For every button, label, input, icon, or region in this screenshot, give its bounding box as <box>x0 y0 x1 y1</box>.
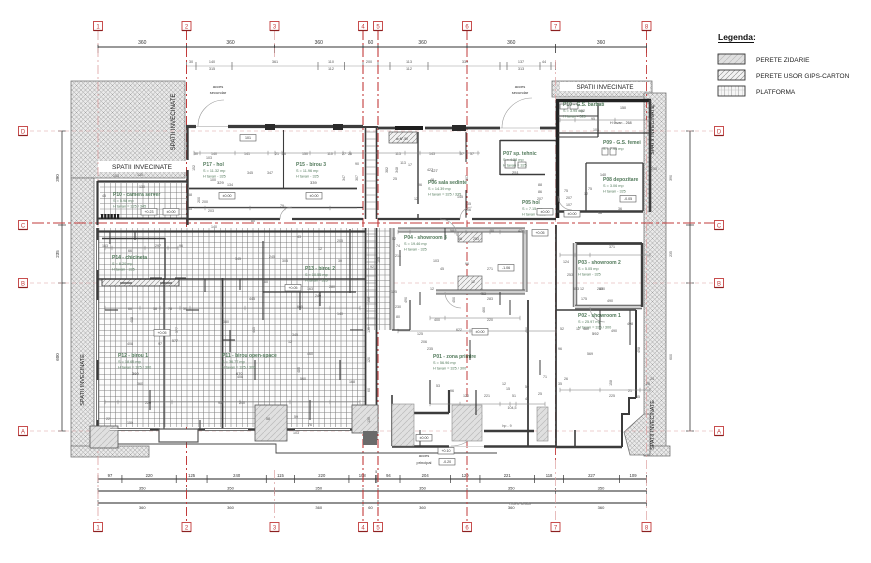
svg-text:360: 360 <box>137 382 143 386</box>
svg-text:307: 307 <box>355 175 359 181</box>
svg-text:30: 30 <box>189 60 193 64</box>
room P15 birou 3 label <box>296 162 326 185</box>
svg-text:+0.23: +0.23 <box>144 210 153 214</box>
window south wall 2 <box>205 428 248 430</box>
dim chain lower south <box>105 400 360 404</box>
grid bubble 3 bottom <box>270 523 279 532</box>
interior small dimension numbers <box>102 104 657 435</box>
svg-text:P14 - chicineta: P14 - chicineta <box>112 255 147 261</box>
svg-text:200: 200 <box>202 200 208 204</box>
svg-text:480: 480 <box>525 327 529 333</box>
top secondary dimension line <box>187 62 556 70</box>
west wall upper segment <box>186 126 188 160</box>
svg-text:350: 350 <box>508 486 515 491</box>
svg-text:57: 57 <box>470 152 474 156</box>
svg-text:130: 130 <box>137 173 143 177</box>
wall stub P02 a <box>599 310 601 330</box>
svg-text:38: 38 <box>153 307 157 311</box>
room P06 sala sedinte label <box>428 180 467 197</box>
svg-text:297: 297 <box>155 244 161 248</box>
svg-text:104,5: 104,5 <box>508 406 517 410</box>
neighbour zone hatch top-left block <box>71 81 185 178</box>
svg-text:361: 361 <box>272 60 278 64</box>
svg-text:97: 97 <box>158 342 162 346</box>
svg-text:207: 207 <box>557 197 561 203</box>
svg-text:C: C <box>717 223 722 229</box>
svg-text:400: 400 <box>434 318 440 322</box>
svg-text:±0.00: ±0.00 <box>310 194 319 198</box>
grid bubble 6 top <box>463 22 472 31</box>
svg-text:124: 124 <box>563 260 569 264</box>
partition P13 south <box>263 291 356 293</box>
label SPATII INVECINATE right band vertical lower <box>650 400 656 450</box>
svg-text:110: 110 <box>649 104 655 108</box>
svg-text:55: 55 <box>636 395 640 399</box>
svg-text:30: 30 <box>490 229 494 233</box>
south porch 2 hatch <box>255 405 287 441</box>
svg-text:C: C <box>21 223 26 229</box>
grid row line B <box>30 282 714 284</box>
svg-text:113: 113 <box>395 152 401 156</box>
svg-text:360: 360 <box>227 505 234 510</box>
room P08 depozitare label <box>603 177 639 194</box>
dim chain P03 <box>560 253 650 257</box>
room P04 showroom 3 label <box>404 235 447 252</box>
svg-text:280: 280 <box>329 285 335 289</box>
room P11 open space label <box>222 353 277 376</box>
svg-text:360: 360 <box>419 505 426 510</box>
level marker P11 <box>285 285 301 292</box>
label SPATII INVECINATE left band vertical <box>80 354 86 406</box>
neighbour zone hatch right band <box>644 93 666 448</box>
svg-text:H tavan - 268: H tavan - 268 <box>610 121 632 125</box>
label SPATII INVECINATE top-left vertical <box>170 93 177 150</box>
svg-text:175: 175 <box>581 297 587 301</box>
partition P14 east <box>164 238 166 279</box>
svg-text:109: 109 <box>630 473 638 478</box>
partition column line7 upper <box>555 225 557 310</box>
svg-text:S = 25.97 mp: S = 25.97 mp <box>578 320 601 324</box>
grid bubble 7 bottom <box>551 523 560 532</box>
svg-text:A: A <box>717 429 721 435</box>
wall stub P02 b <box>629 310 631 345</box>
svg-text:135: 135 <box>367 327 371 333</box>
svg-text:143: 143 <box>429 152 435 156</box>
svg-text:12: 12 <box>576 327 580 331</box>
label SPATII INVECINATE right band vertical upper <box>650 105 656 155</box>
door arc P04 <box>445 292 461 308</box>
svg-text:74: 74 <box>396 244 400 248</box>
svg-text:22: 22 <box>106 417 110 421</box>
right dimension line <box>686 131 694 431</box>
room P17 hol label <box>203 162 226 185</box>
svg-text:75: 75 <box>588 187 592 191</box>
svg-text:235: 235 <box>55 250 60 258</box>
short wall segments lower-left <box>105 232 363 429</box>
svg-text:283: 283 <box>487 297 493 301</box>
bottom dimension row 3 <box>98 500 647 510</box>
top main dimension labels <box>138 40 605 46</box>
svg-text:35: 35 <box>558 382 562 386</box>
svg-text:43: 43 <box>297 235 301 239</box>
svg-text:48: 48 <box>430 178 434 182</box>
svg-text:150: 150 <box>302 152 308 156</box>
svg-text:±0.00: ±0.00 <box>223 194 232 198</box>
svg-text:141: 141 <box>244 152 250 156</box>
label acces secundar west <box>210 84 227 95</box>
svg-text:350: 350 <box>598 486 605 491</box>
svg-text:305: 305 <box>282 259 288 263</box>
svg-text:SPATII INVECINATE: SPATII INVECINATE <box>576 84 633 91</box>
grid column line 2 <box>186 31 188 523</box>
svg-text:360: 360 <box>315 505 322 510</box>
svg-text:251: 251 <box>512 170 519 175</box>
svg-text:206: 206 <box>421 340 427 344</box>
niche label <box>396 137 408 141</box>
svg-text:B: B <box>717 281 721 287</box>
svg-text:86: 86 <box>538 190 542 194</box>
svg-text:S = 19.46 mp: S = 19.46 mp <box>404 242 427 246</box>
vestibule wall jamb <box>448 390 450 413</box>
svg-text:acces: acces <box>515 84 525 89</box>
room P14 chicineta label <box>112 255 147 272</box>
svg-text:360: 360 <box>138 40 147 46</box>
dim chain P04 north <box>398 230 525 234</box>
level marker P04b <box>498 265 514 272</box>
svg-text:207: 207 <box>566 196 572 200</box>
svg-text:96: 96 <box>418 183 422 187</box>
grid bubble 6 bottom <box>463 523 472 532</box>
svg-text:P04 - showroom 3: P04 - showroom 3 <box>404 235 447 241</box>
window south wall 3 <box>295 428 350 430</box>
room P07 sp tehnic label <box>503 151 537 168</box>
svg-text:H tavan - 325: H tavan - 325 <box>563 115 586 119</box>
vestibule wall east <box>484 430 534 432</box>
svg-text:59: 59 <box>294 415 298 419</box>
svg-text:110: 110 <box>327 152 333 156</box>
partition P17/P15 <box>283 130 285 188</box>
bottom dimension row 1 <box>98 470 647 483</box>
room P01 zona primire label <box>433 354 476 371</box>
label acces principal <box>417 453 432 465</box>
svg-text:P17 - hol: P17 - hol <box>203 162 224 168</box>
svg-text:S = 18.65 mp: S = 18.65 mp <box>118 360 141 364</box>
svg-text:315: 315 <box>209 67 215 71</box>
svg-text:26: 26 <box>348 152 352 156</box>
svg-text:134: 134 <box>227 183 233 187</box>
svg-text:350: 350 <box>227 486 234 491</box>
grid row line D <box>30 130 714 132</box>
svg-text:665: 665 <box>297 305 303 309</box>
wall stub P01 c <box>409 300 411 330</box>
svg-text:28: 28 <box>646 382 650 386</box>
svg-text:130: 130 <box>139 185 145 189</box>
svg-text:PERETE ZIDARIE: PERETE ZIDARIE <box>756 57 810 64</box>
room P06 number <box>431 168 438 173</box>
north wall west section <box>228 125 363 128</box>
east outer wall upper <box>649 100 652 212</box>
south outer wall a <box>98 428 161 431</box>
svg-text:P10 - camera server: P10 - camera server <box>113 192 160 198</box>
svg-text:400: 400 <box>599 287 605 291</box>
partition west of P06 stub <box>417 214 419 219</box>
svg-text:45: 45 <box>102 194 106 198</box>
room P10 extra dim <box>610 106 632 125</box>
svg-text:±0.00: ±0.00 <box>420 436 429 440</box>
svg-text:SPATII INVECINATE: SPATII INVECINATE <box>112 164 173 171</box>
svg-text:acces: acces <box>419 453 429 458</box>
svg-text:204: 204 <box>422 473 430 478</box>
level marker hall central <box>306 193 322 200</box>
wall stub P01 b <box>475 390 477 415</box>
svg-text:113: 113 <box>406 60 412 64</box>
north wall stair strip <box>363 126 378 128</box>
svg-text:44: 44 <box>542 60 546 64</box>
svg-text:SPATII INVECINATE: SPATII INVECINATE <box>170 93 177 150</box>
north wall west stub <box>186 125 196 128</box>
svg-text:hp - 9: hp - 9 <box>502 424 511 428</box>
north wall central black segment <box>395 126 423 130</box>
exterior platform hatch porch 2 <box>452 405 482 441</box>
svg-text:480: 480 <box>583 327 589 331</box>
svg-text:51: 51 <box>512 394 516 398</box>
svg-text:P03 - showroom 2: P03 - showroom 2 <box>578 260 621 266</box>
legend label platforma <box>756 89 796 96</box>
svg-text:240: 240 <box>315 294 321 298</box>
svg-text:137: 137 <box>518 60 524 64</box>
svg-text:235: 235 <box>669 251 673 257</box>
svg-text:592: 592 <box>592 331 599 336</box>
west wall camera server room <box>96 181 98 225</box>
partition east of P06 upper <box>465 132 467 162</box>
legend label perete zidarie <box>756 57 810 64</box>
svg-text:235: 235 <box>427 347 433 351</box>
svg-text:125: 125 <box>391 290 397 294</box>
svg-text:360: 360 <box>226 40 235 46</box>
legend swatch perete usor gips-carton <box>718 70 745 80</box>
niche hatch north of P06 <box>389 132 417 143</box>
svg-text:H tavan = 325 / 345: H tavan = 325 / 345 <box>113 205 146 209</box>
grid bubble 7 top <box>551 22 560 31</box>
svg-text:PERETE USOR GIPS-CARTON: PERETE USOR GIPS-CARTON <box>756 73 850 80</box>
dim chain north band <box>194 151 480 155</box>
level marker P05 <box>537 209 553 216</box>
svg-text:17: 17 <box>408 163 412 167</box>
svg-text:220: 220 <box>146 473 154 478</box>
level marker entry2 <box>416 435 432 442</box>
level marker P04 <box>532 230 548 237</box>
svg-text:221: 221 <box>504 473 512 478</box>
level marker P10 server b <box>163 209 179 216</box>
dim chain GS <box>560 118 650 122</box>
label SPATII INVECINATE top-left horizontal <box>98 161 186 172</box>
svg-text:380: 380 <box>223 320 229 324</box>
svg-text:97: 97 <box>108 473 113 478</box>
svg-text:253: 253 <box>567 273 573 277</box>
south wall north band west b <box>292 218 363 220</box>
svg-text:66: 66 <box>128 249 132 253</box>
exterior platform hatch west of entry <box>392 404 414 446</box>
dim chain P01 north a <box>430 316 520 320</box>
south wall north band central a <box>378 218 460 220</box>
grid row line A <box>30 430 714 432</box>
partition GS femei south <box>586 162 643 164</box>
svg-text:220: 220 <box>318 473 326 478</box>
svg-text:350: 350 <box>315 486 322 491</box>
svg-text:112: 112 <box>328 67 334 71</box>
svg-text:S = 11.96 mp: S = 11.96 mp <box>296 169 318 173</box>
svg-text:120: 120 <box>462 473 470 478</box>
south porch 3 hatch <box>352 405 378 433</box>
svg-text:345: 345 <box>235 257 241 261</box>
svg-text:360: 360 <box>418 40 427 46</box>
svg-text:S = 11.32 mp: S = 11.32 mp <box>203 169 225 173</box>
svg-text:acces: acces <box>213 84 223 89</box>
neighbour zone hatch bottom-right wedge <box>624 414 650 455</box>
partition GS barbati south <box>558 132 650 134</box>
dim chain P01 south <box>430 402 545 406</box>
svg-text:96: 96 <box>558 347 562 351</box>
grid bubble 3 top <box>270 22 279 31</box>
east wall P03 <box>641 243 643 307</box>
svg-text:88: 88 <box>538 183 542 187</box>
svg-text:158: 158 <box>367 297 371 303</box>
room P02 showroom 1 label <box>578 313 621 336</box>
grid bubble 5 bottom <box>374 523 383 532</box>
east wall P02 steps <box>622 398 636 447</box>
svg-text:12: 12 <box>430 287 434 291</box>
svg-text:B: B <box>21 281 25 287</box>
svg-text:577: 577 <box>175 327 179 333</box>
svg-text:79: 79 <box>280 204 284 208</box>
svg-text:271: 271 <box>487 267 493 271</box>
svg-text:408: 408 <box>127 342 133 346</box>
svg-text:347: 347 <box>267 171 273 175</box>
svg-text:203: 203 <box>208 209 214 213</box>
left corner platform hatch <box>90 426 118 448</box>
door opening corridor b <box>460 207 472 219</box>
svg-text:200: 200 <box>197 197 201 203</box>
svg-text:H tavan = 325 / 300: H tavan = 325 / 300 <box>433 367 466 371</box>
svg-text:P11 - birou open-space: P11 - birou open-space <box>222 353 277 359</box>
east wall P02 <box>635 310 637 398</box>
svg-text:569: 569 <box>587 352 593 356</box>
bottom annotation scribble <box>509 502 531 506</box>
svg-text:a=N°-50: a=N°-50 <box>396 137 408 141</box>
neighbour zone hatch top-right band <box>552 81 652 97</box>
grid bubble 8 bottom <box>642 523 651 532</box>
svg-text:205: 205 <box>651 167 657 171</box>
north wall P14 <box>102 238 165 240</box>
room P10 camera server label <box>113 192 160 209</box>
label SPATII INVECINATE top-right horizontal <box>560 82 650 91</box>
svg-text:+0.05: +0.05 <box>157 331 166 335</box>
svg-text:329: 329 <box>217 180 224 185</box>
grid bubble B left <box>19 279 28 288</box>
stair strip east wall upper <box>376 126 378 219</box>
north wall lower-left quadrant <box>98 230 366 232</box>
svg-text:26: 26 <box>564 377 568 381</box>
svg-text:80: 80 <box>396 315 400 319</box>
svg-text:53: 53 <box>436 384 440 388</box>
svg-text:245: 245 <box>269 255 275 259</box>
svg-text:30: 30 <box>338 259 342 263</box>
west wall center zone lower <box>391 395 393 446</box>
svg-text:+0.05: +0.05 <box>535 231 544 235</box>
stair strip bottom block <box>363 431 377 445</box>
svg-text:427: 427 <box>427 168 433 172</box>
svg-text:±0.00: ±0.00 <box>167 210 176 214</box>
svg-text:207: 207 <box>537 197 543 201</box>
svg-text:100: 100 <box>210 178 216 182</box>
grid column line 8 <box>646 31 648 523</box>
south wall P04 <box>436 290 525 294</box>
svg-text:-1.06: -1.06 <box>502 266 510 270</box>
svg-text:130: 130 <box>367 417 371 423</box>
svg-text:113: 113 <box>400 161 406 165</box>
svg-text:D: D <box>21 129 26 135</box>
partition lower-left b <box>349 229 351 293</box>
legend title <box>718 32 756 43</box>
svg-text:24: 24 <box>650 377 654 381</box>
svg-text:253: 253 <box>473 237 479 241</box>
svg-text:43: 43 <box>525 397 529 401</box>
svg-text:25: 25 <box>393 177 397 181</box>
north wall central section <box>425 127 500 130</box>
svg-text:±0.00: ±0.00 <box>541 210 550 214</box>
svg-text:445: 445 <box>249 297 255 301</box>
room P07 number <box>512 170 519 175</box>
north wall P07 <box>500 140 556 142</box>
svg-text:42: 42 <box>518 229 522 233</box>
svg-text:168: 168 <box>349 380 355 384</box>
svg-text:S = 7.95 mp: S = 7.95 mp <box>603 147 624 151</box>
corridor wall north band west <box>189 188 357 190</box>
level marker entry <box>438 448 454 455</box>
grid column line 3 <box>274 31 276 520</box>
door opening corridor a <box>280 207 292 219</box>
window west wall 2 <box>96 380 98 420</box>
exterior platform hatch strip <box>537 407 548 441</box>
secondary access door opening west <box>196 100 228 127</box>
grid bubble 4 top <box>359 22 368 31</box>
svg-text:91: 91 <box>218 401 222 405</box>
room P09 GS femei label <box>603 140 641 151</box>
svg-text:339: 339 <box>310 180 317 185</box>
svg-text:H tavan - 325: H tavan - 325 <box>603 190 626 194</box>
svg-text:485: 485 <box>297 367 301 373</box>
svg-text:P15 - birou 3: P15 - birou 3 <box>296 162 326 168</box>
svg-text:118: 118 <box>546 473 553 478</box>
svg-text:214: 214 <box>395 254 401 258</box>
svg-text:152: 152 <box>579 109 585 113</box>
svg-text:125: 125 <box>417 332 423 336</box>
svg-text:115: 115 <box>277 473 284 478</box>
west wall P07 <box>499 140 501 175</box>
svg-text:45: 45 <box>440 267 444 271</box>
svg-text:101: 101 <box>245 136 251 140</box>
svg-text:94: 94 <box>386 473 391 478</box>
hatched wall band south of P14 <box>102 279 179 286</box>
partition in east section lower <box>585 163 587 211</box>
room P10 GS barbati label <box>563 102 605 119</box>
svg-text:21: 21 <box>275 152 279 156</box>
south wall P03 <box>575 305 642 309</box>
secondary access door opening central <box>500 98 540 128</box>
dim chain P14 <box>105 246 178 250</box>
svg-text:58: 58 <box>598 211 602 215</box>
dim chain P02 south <box>560 388 650 392</box>
